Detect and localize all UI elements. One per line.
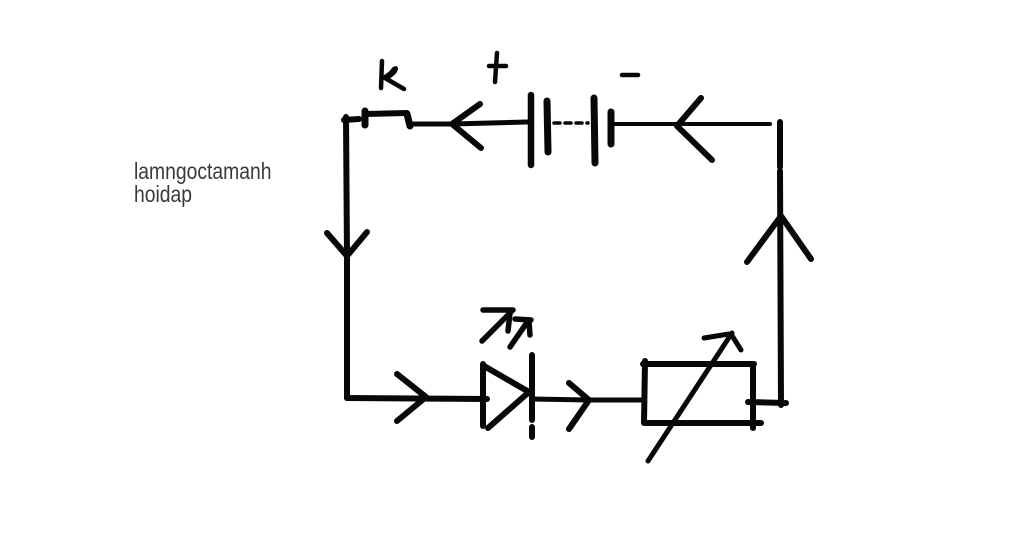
label k [381,61,404,89]
current arrow (left) before battery [452,104,481,148]
LED emission arrow 2 [510,319,531,347]
LED emission arrow 1 [482,310,513,341]
battery dotted link [554,121,588,125]
watermark text lamngoctamanh hoidap [134,160,271,206]
wire: bottom-left horizontal [347,398,487,399]
LED D1 cathode bar [529,355,535,437]
battery B1 plate 3 (long) [594,98,595,163]
current arrow (right) on bottom wire [397,374,426,421]
wire: right vertical side [780,122,781,405]
wire: battery to top-right corner [613,122,770,126]
wire: switch to battery [413,122,527,124]
rheostat adjustment arrow [648,333,741,461]
battery B1 plate 1 (long) [528,95,535,165]
rheostat R1 body [643,361,761,428]
battery B1 plate 4 (short) [608,112,615,144]
battery B1 plate 2 (short) [547,101,548,152]
wire: rheostat to right side [748,402,786,403]
current arrow (up) on right wire [747,216,811,262]
current arrow (right) before rheostat [569,383,589,429]
LED D1 triangle [484,366,529,428]
label − (negative terminal) [622,73,638,78]
wire: left vertical side [346,117,347,398]
current arrow (left) after battery [677,98,712,160]
current arrow (down) on left wire [327,232,367,256]
LED D1 anode bar [480,364,486,426]
switch K [365,111,410,126]
wire: top-left corner stub [344,119,359,120]
wire: LED to rheostat [532,399,643,400]
label + (positive terminal) [489,53,506,82]
